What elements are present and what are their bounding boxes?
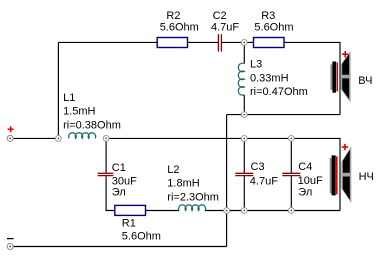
svg-text:R3: R3	[261, 10, 275, 22]
wire: L2 to woofer return rail	[205, 210, 340, 212]
wire: C1 bottom lead and corner to R1	[106, 176, 115, 210]
wire: vertical bus from tweeter rail down to minus rail	[226, 115, 228, 247]
svg-text:ri=0.38Ohm: ri=0.38Ohm	[63, 119, 121, 131]
capacitor C3	[235, 173, 253, 175]
wire: L3 top lead	[243, 42, 245, 63]
wire: C3 bottom lead	[243, 176, 245, 210]
wire: C1 top lead	[105, 138, 107, 172]
svg-text:НЧ: НЧ	[359, 171, 374, 183]
svg-text:L3: L3	[250, 59, 262, 71]
junction node: L3 bottom on tweeter return	[241, 112, 247, 118]
junction node: C4 bottom	[288, 208, 294, 214]
resistor R1	[115, 205, 146, 215]
svg-text:10uF: 10uF	[298, 175, 323, 187]
svg-text:C2: C2	[213, 10, 227, 22]
inductor L3	[238, 63, 244, 95]
wire: C3 top lead	[243, 138, 245, 172]
wire: R3 to tweeter corner and down	[284, 42, 340, 114]
junction node: bus joins woofer return	[224, 208, 230, 214]
wire: L3 bottom lead	[243, 95, 245, 115]
terminal: input minus	[7, 239, 14, 250]
junction node: C3 top	[241, 136, 247, 142]
svg-text:L2: L2	[167, 164, 179, 176]
inductor L2	[179, 205, 206, 211]
capacitor C1	[98, 173, 114, 175]
svg-text:ri=2.3Ohm: ri=2.3Ohm	[167, 191, 219, 203]
svg-text:5.6Ohm: 5.6Ohm	[160, 21, 199, 33]
resistor R2	[157, 38, 187, 48]
svg-text:4.7uF: 4.7uF	[250, 175, 278, 187]
svg-text:C3: C3	[251, 161, 265, 173]
resistor R3	[254, 38, 285, 48]
wire: R2 to C2 left plate	[188, 41, 218, 43]
wire: tweeter return rail	[227, 114, 340, 116]
wire: top rail to R2	[58, 41, 157, 43]
svg-text:4.7uF: 4.7uF	[211, 21, 239, 33]
junction node: C4 top	[288, 136, 294, 142]
svg-text:R1: R1	[122, 218, 136, 230]
svg-text:5.6Ohm: 5.6Ohm	[254, 21, 293, 33]
svg-text:Эл: Эл	[298, 186, 312, 198]
wire: R1 to L2	[146, 210, 180, 212]
svg-text:5.6Ohm: 5.6Ohm	[122, 230, 161, 242]
inductor L1	[69, 133, 96, 139]
wire: minus rail	[13, 246, 227, 248]
svg-text:C1: C1	[112, 162, 126, 174]
terminal: input plus	[7, 126, 13, 141]
svg-text:1.5mH: 1.5mH	[63, 106, 95, 118]
svg-text:L1: L1	[63, 92, 75, 104]
svg-text:ВЧ: ВЧ	[358, 75, 372, 87]
speaker НЧ (woofer)	[330, 144, 352, 203]
junction node: C2-R3-L3	[241, 40, 247, 46]
svg-text:Эл: Эл	[112, 186, 126, 198]
wire: node A up to top rail	[57, 42, 59, 138]
capacitor C2	[218, 34, 221, 51]
wire: C4 top lead	[290, 138, 292, 172]
speaker BЧ (tweeter)	[330, 51, 350, 103]
junction node: C3 bottom	[241, 208, 247, 214]
svg-text:R2: R2	[166, 10, 180, 22]
capacitor C4	[282, 173, 300, 175]
junction node A (L1 left)	[56, 136, 62, 142]
svg-text:ri=0.47Ohm: ri=0.47Ohm	[250, 86, 308, 98]
svg-text:C4: C4	[298, 161, 312, 173]
svg-text:0.33mH: 0.33mH	[250, 72, 289, 84]
wire: input plus to node A	[13, 137, 58, 139]
wire: mid rail from L1 to woofer corner and down	[106, 138, 340, 210]
wire: C4 bottom lead	[290, 176, 292, 210]
svg-text:1.8mH: 1.8mH	[167, 178, 199, 190]
wire: C2 right plate to R3	[222, 41, 254, 43]
junction node B (L1 right / C1 top)	[103, 136, 109, 142]
